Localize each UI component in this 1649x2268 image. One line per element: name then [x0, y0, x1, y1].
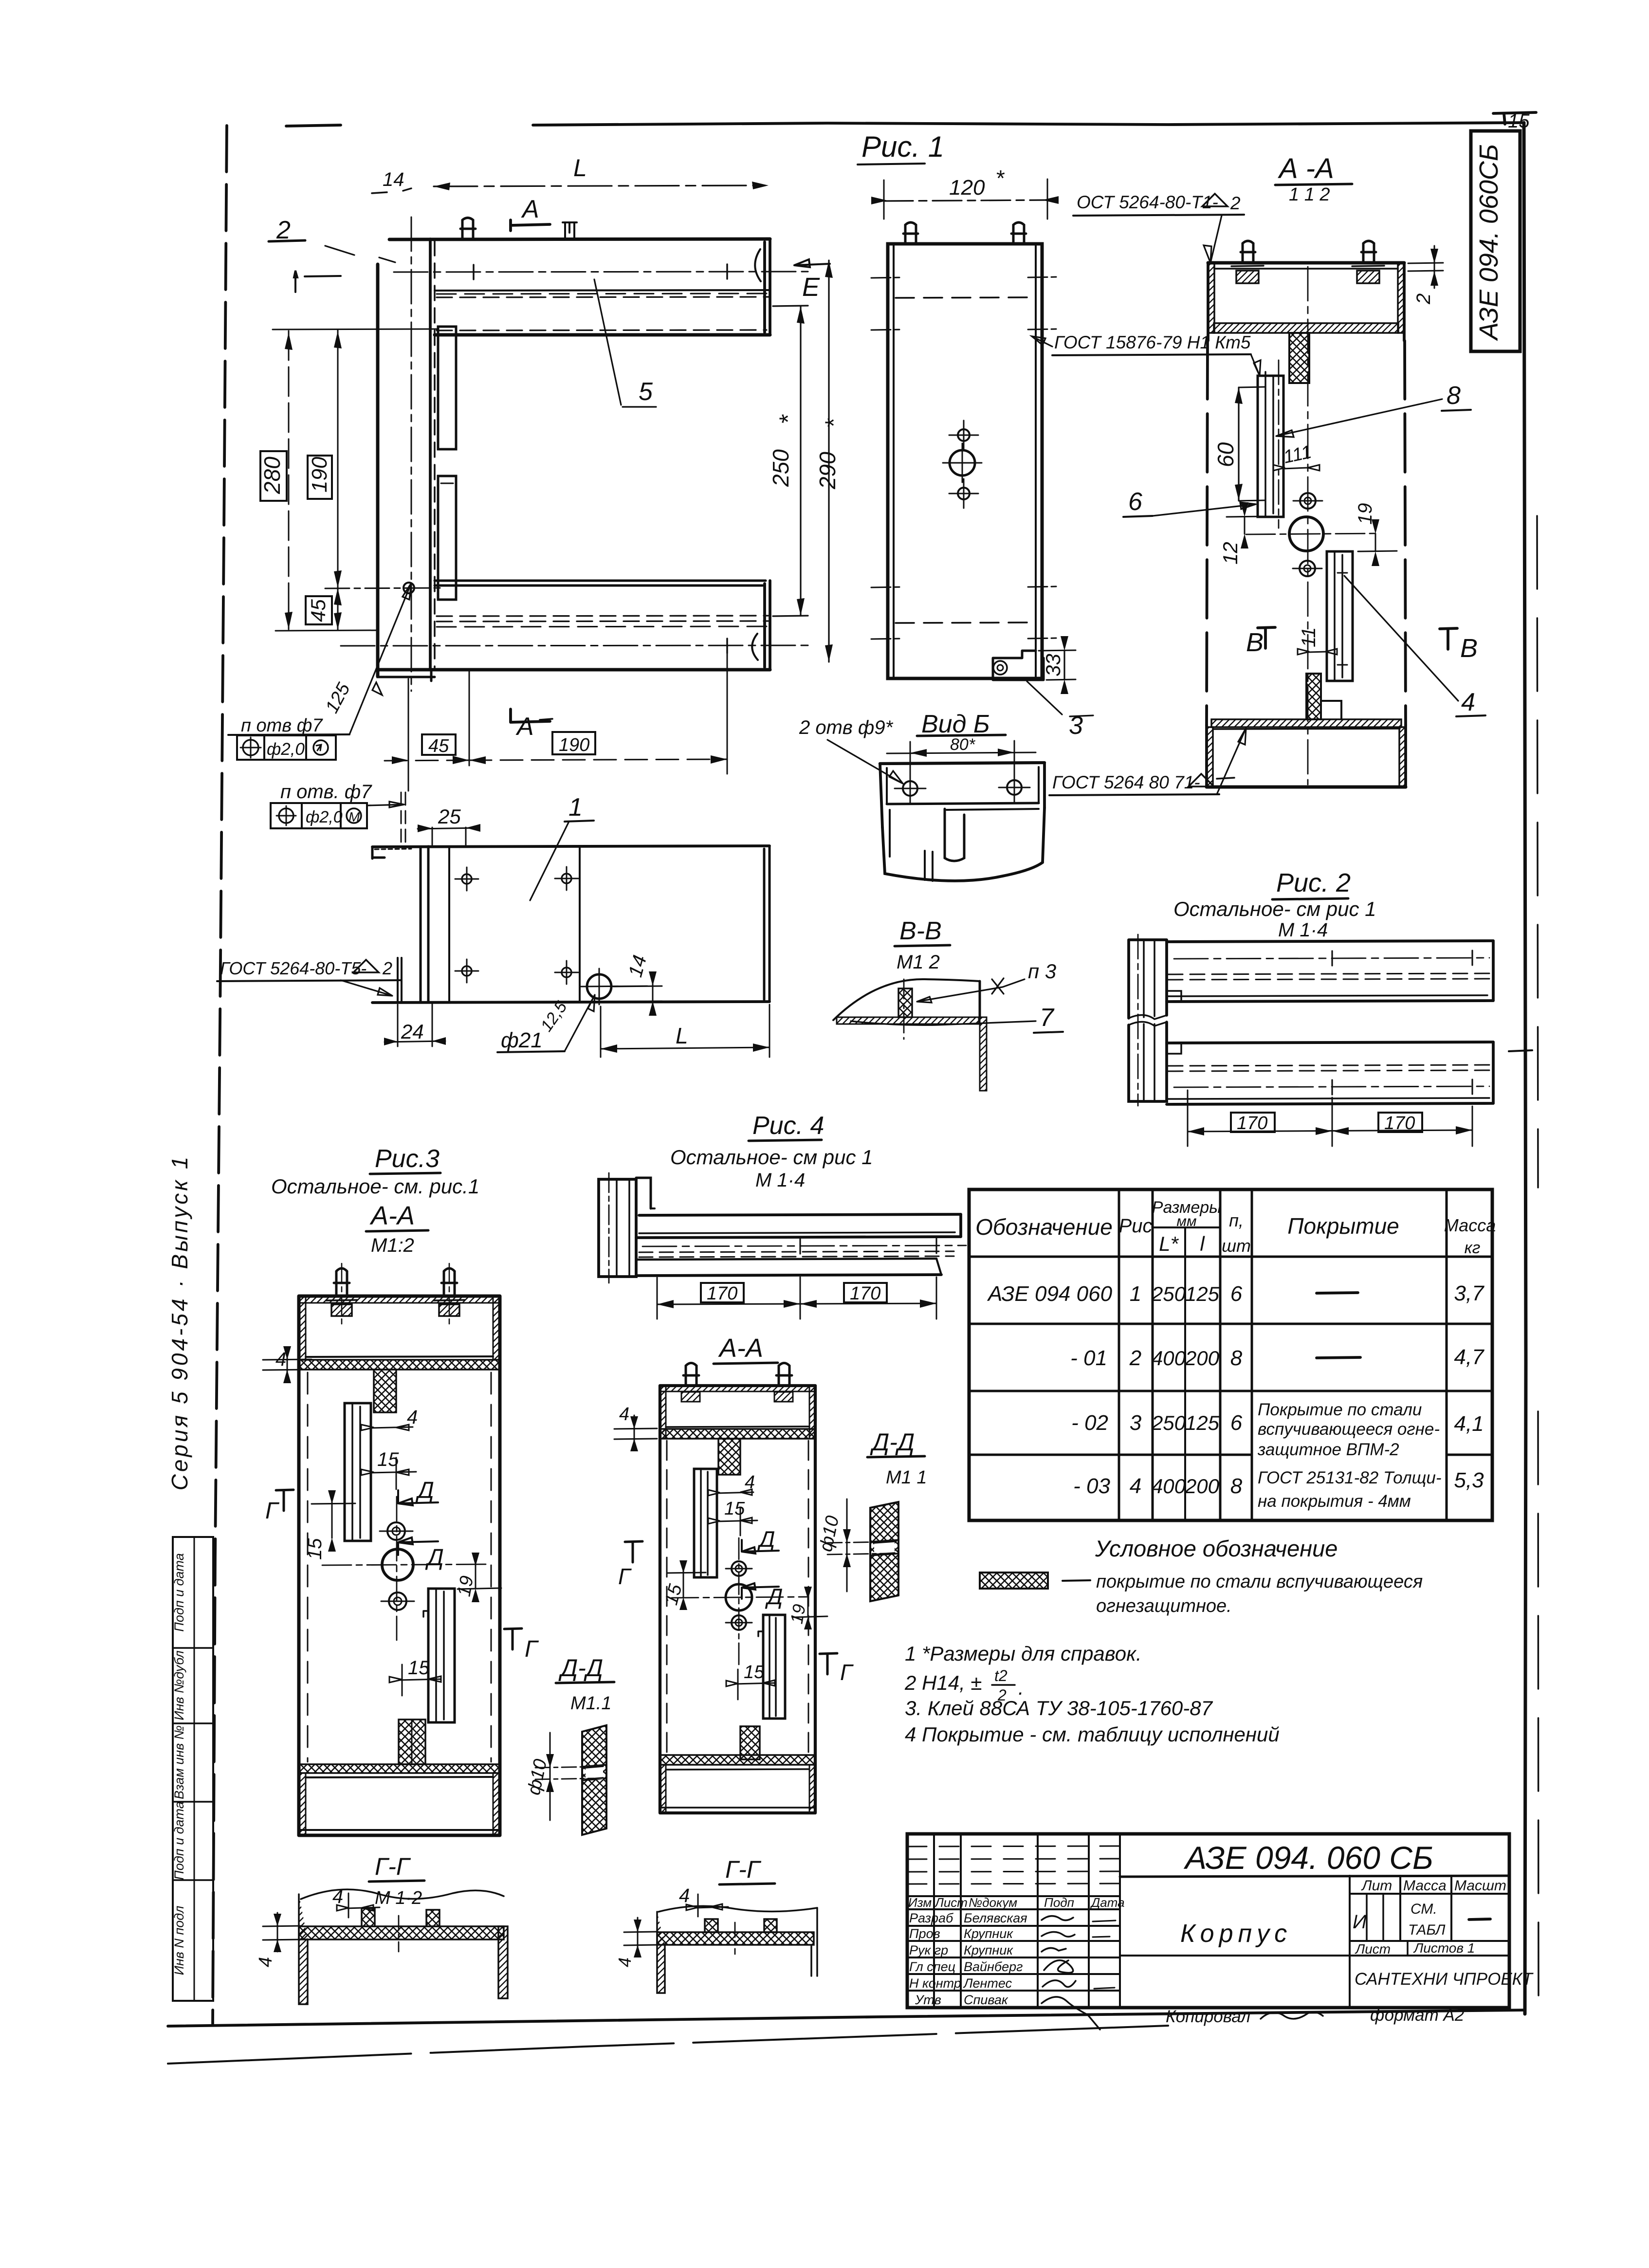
fig4 lower stub hatched — [740, 1726, 760, 1759]
lit-massa-masshtab sub table — [1400, 1876, 1451, 1941]
svg-text:1: 1 — [568, 793, 583, 822]
C-part web outer left edge — [376, 264, 380, 677]
svg-text:8: 8 — [1230, 1474, 1243, 1498]
AA outer right edge — [1403, 263, 1406, 341]
dim 290* far right — [828, 260, 829, 662]
svg-text:Подп и дата: Подп и дата — [172, 1553, 186, 1632]
svg-text:формат А2: формат А2 — [1370, 2006, 1464, 2025]
svg-text:Взам инв №: Взам инв № — [172, 1725, 186, 1799]
AA outer left edge — [1207, 263, 1209, 341]
svg-text:t2: t2 — [994, 1667, 1008, 1684]
AA left plate pair — [1258, 376, 1283, 517]
svg-text:Д: Д — [415, 1478, 434, 1503]
svg-text:400: 400 — [1152, 1475, 1186, 1498]
item1 left bottom tab — [398, 958, 402, 1003]
E-view bolt right — [1011, 222, 1026, 244]
svg-text:Масшт: Масшт — [1454, 1878, 1506, 1894]
svg-text:Покрытие: Покрытие — [1287, 1213, 1399, 1239]
svg-text:2: 2 — [382, 958, 392, 978]
E-view center hole big — [950, 450, 975, 476]
svg-text:*: * — [774, 414, 802, 424]
top flange slot arc — [755, 249, 761, 281]
item1 weld seam line — [579, 846, 581, 1002]
item5 leader — [594, 279, 656, 407]
E-view bolt left — [903, 222, 918, 244]
hole centerline — [325, 588, 440, 588]
bracket bolt — [993, 661, 1007, 675]
bracket lower tongue — [882, 808, 1044, 881]
svg-text:2: 2 — [1230, 193, 1241, 213]
fig4 bolt right — [776, 1363, 792, 1386]
svg-text:Обозначение: Обозначение — [975, 1214, 1113, 1240]
svg-text:Г: Г — [618, 1564, 632, 1589]
fig3 bottom band hatched — [299, 1764, 500, 1773]
item1 inner bend line — [448, 846, 450, 1002]
AA lower stub hatched — [1306, 674, 1321, 719]
extension line flange bottom — [273, 329, 438, 329]
svg-text:ГОСТ 15876-79 Н1 Кт5: ГОСТ 15876-79 Н1 Кт5 — [1054, 332, 1251, 352]
svg-text:СМ.: СМ. — [1411, 1901, 1437, 1917]
svg-text:Подп: Подп — [1044, 1895, 1074, 1910]
item1 bend verticals — [421, 846, 428, 1003]
fig3 bolt right — [441, 1268, 457, 1296]
fig3 G-G left leg hatched — [299, 1894, 308, 2004]
svg-text:АЗЕ 094. 060СБ: АЗЕ 094. 060СБ — [1474, 144, 1503, 341]
svg-text:Корпус: Корпус — [1180, 1920, 1292, 1948]
svg-text:125: 125 — [1185, 1411, 1220, 1434]
hole leader diagonal — [349, 583, 411, 734]
svg-text:мм: мм — [1176, 1213, 1196, 1229]
AA vertical centerline — [1307, 267, 1309, 785]
fig4 dims 170 170 — [657, 1277, 936, 1319]
fig4 bottom rail — [638, 1259, 936, 1260]
svg-text:5,3: 5,3 — [1454, 1468, 1484, 1492]
fig4 rail hidden lines — [639, 1251, 954, 1257]
web hole — [403, 583, 414, 593]
svg-text:Гл спец: Гл спец — [909, 1959, 955, 1974]
AA right plate pair — [1327, 551, 1353, 681]
bottom flange slot arc — [752, 634, 758, 660]
svg-text:4: 4 — [1130, 1474, 1141, 1498]
fig3 G-G right leg hatched — [498, 1926, 508, 1998]
svg-text:Дата: Дата — [1090, 1895, 1125, 1910]
svg-text:кг: кг — [1465, 1239, 1481, 1257]
svg-text:111: 111 — [1282, 442, 1313, 468]
fig3 left plate — [345, 1403, 371, 1541]
svg-text:190: 190 — [559, 735, 589, 755]
svg-text:400: 400 — [1152, 1347, 1186, 1370]
svg-text:Масса: Масса — [1403, 1878, 1447, 1894]
svg-text:ТАБЛ: ТАБЛ — [1408, 1922, 1446, 1938]
FIG1 MAIN C VIEW — [228, 130, 944, 791]
fig4 bolt left — [683, 1363, 699, 1386]
bolt 2 on top — [563, 222, 577, 239]
top flange inner lip line — [435, 290, 770, 291]
table outer box — [969, 1189, 1492, 1520]
fcf leader — [367, 802, 404, 807]
fig4 G-G band hatched — [657, 1932, 814, 1945]
fig4 G-G tab 1 — [705, 1919, 718, 1932]
svg-text:Г: Г — [840, 1660, 854, 1685]
C-part top flange top edge — [389, 239, 770, 239]
svg-text:3: 3 — [1069, 712, 1083, 740]
svg-text:1 *Размеры для справок.: 1 *Размеры для справок. — [905, 1642, 1142, 1665]
fig2 bottom rail centerline — [1174, 1086, 1489, 1087]
svg-text:8: 8 — [1447, 382, 1461, 410]
fig3 upper stub hatched — [374, 1370, 396, 1412]
fig4 G-G left leg hatched — [657, 1912, 665, 1993]
legend hatch sample — [980, 1573, 1048, 1589]
svg-text:4,1: 4,1 — [1454, 1412, 1484, 1436]
dim 120* top — [884, 200, 1047, 201]
svg-text:В: В — [1246, 628, 1264, 657]
svg-text:280: 280 — [259, 457, 285, 494]
item1 right edge — [764, 846, 770, 1002]
top frame border — [286, 125, 341, 126]
fig2 web block lower — [1129, 1022, 1167, 1101]
top flange centerline with marks — [394, 272, 808, 272]
fig2 web block upper — [1129, 940, 1167, 1018]
svg-text:В: В — [1460, 634, 1478, 663]
svg-text:15: 15 — [724, 1499, 745, 1519]
svg-text:3: 3 — [1130, 1411, 1142, 1435]
extension line bottom — [275, 630, 378, 631]
dim 250* right — [773, 306, 808, 616]
FIG1 MIDDLE RECT VIEW — [871, 165, 1261, 740]
fig4 top rail — [639, 1214, 961, 1215]
AA plate centerline — [1278, 360, 1280, 528]
svg-text:шт: шт — [1222, 1236, 1251, 1256]
svg-text:4: 4 — [619, 1404, 629, 1425]
svg-text:ф2,0: ф2,0 — [267, 740, 305, 759]
tab plate lower on web — [438, 476, 456, 600]
svg-text:2 отв ф9*: 2 отв ф9* — [799, 717, 894, 738]
svg-text:ф2,0: ф2,0 — [306, 808, 343, 826]
svg-text:ф10: ф10 — [816, 1514, 843, 1554]
tab plate upper on web — [438, 327, 456, 449]
svg-text:на покрытия - 4мм: на покрытия - 4мм — [1258, 1492, 1411, 1511]
E-view inner edge lines — [894, 244, 1036, 678]
fig4 G-G centerline — [734, 1922, 736, 1954]
svg-text:Г-Г: Г-Г — [725, 1856, 762, 1883]
AA big hole — [1289, 517, 1323, 551]
svg-text:6: 6 — [1230, 1282, 1243, 1306]
AA washer top — [1300, 493, 1316, 509]
svg-text:6: 6 — [1230, 1411, 1243, 1435]
fig2 top rail centerline — [1174, 958, 1489, 959]
bottom flange centerline — [341, 645, 808, 646]
fig3 divider band hatched — [299, 1360, 500, 1370]
right frame border — [1524, 123, 1526, 2014]
svg-text:190: 190 — [308, 457, 331, 493]
fig3 G-G top break line — [301, 1889, 504, 1899]
fig4 rail centerline — [642, 1245, 966, 1246]
svg-text:огнезащитное.: огнезащитное. — [1096, 1596, 1232, 1616]
svg-text:А: А — [515, 713, 534, 741]
fig3 D-D hatched bar — [582, 1725, 606, 1835]
svg-text:Н контр: Н контр — [909, 1976, 961, 1991]
svg-text:4 Покрытие - см. таблицу исп: 4 Покрытие - см. таблицу исполнений — [905, 1723, 1280, 1746]
svg-text:170: 170 — [1384, 1113, 1415, 1134]
svg-text:7: 7 — [1040, 1004, 1055, 1032]
svg-text:3,7: 3,7 — [1454, 1281, 1484, 1305]
svg-text:4: 4 — [1461, 688, 1475, 716]
fig3 bolt left — [334, 1268, 349, 1296]
svg-text:М 1·4: М 1·4 — [1278, 919, 1328, 941]
SECTION V-V — [833, 917, 1063, 1091]
svg-text:М 1·4: М 1·4 — [755, 1170, 805, 1191]
svg-text:М: М — [348, 809, 360, 824]
C-part web right edge — [429, 239, 432, 670]
V-V pad centerline — [903, 979, 905, 1039]
svg-text:45: 45 — [428, 736, 449, 756]
fig4 upper stub hatched — [718, 1439, 740, 1475]
AA washer bottom — [1300, 561, 1315, 576]
svg-text:125: 125 — [322, 679, 354, 716]
fig2 bottom rail — [1167, 1042, 1493, 1043]
svg-text:170: 170 — [850, 1283, 880, 1304]
dата column dashes — [1093, 1920, 1116, 1989]
svg-text:Д-Д: Д-Д — [870, 1428, 915, 1456]
leader item 8 — [1276, 399, 1442, 437]
svg-text:Лист: Лист — [1355, 1941, 1391, 1957]
FIG2 — [1129, 868, 1493, 1146]
dim 2 right of cap — [1408, 263, 1443, 271]
NOTES — [904, 1536, 1423, 1746]
svg-text:Лист: Лист — [934, 1895, 968, 1910]
svg-text:САНТЕХНИ ЧПРОЕКТ: САНТЕХНИ ЧПРОЕКТ — [1355, 1970, 1534, 1989]
bottom dims 45 and 190 — [408, 652, 727, 791]
E-view bottom step bracket — [993, 651, 1044, 680]
svg-text:ГОСТ 25131-82 Толщи-: ГОСТ 25131-82 Толщи- — [1258, 1468, 1442, 1487]
fig4 bottom band hatched — [660, 1755, 815, 1765]
AA horizontal centerline at hole — [1246, 533, 1377, 534]
svg-text:М1.1: М1.1 — [570, 1693, 611, 1714]
document stamp box top right — [1471, 131, 1520, 351]
E-view hidden lines — [896, 297, 1034, 298]
svg-text:Изм: Изм — [908, 1895, 932, 1910]
svg-text:п 3: п 3 — [1028, 960, 1056, 983]
svg-text:Подп и дата: Подп и дата — [172, 1801, 186, 1880]
top flange right edge — [765, 239, 770, 335]
SECTION A-A RIGHT — [1049, 153, 1485, 795]
svg-text:№докум: №докум — [969, 1895, 1017, 1910]
svg-text:покрытие по стали вспучиваю: покрытие по стали вспучивающееся — [1096, 1572, 1423, 1592]
svg-text:А-А: А-А — [718, 1334, 763, 1363]
leader item 4 — [1344, 576, 1458, 701]
svg-text:6: 6 — [1128, 488, 1142, 516]
right secondary dashed border — [1537, 516, 1539, 2005]
doc number cell underline — [1120, 1876, 1509, 1877]
fig4 channel left block — [599, 1179, 636, 1277]
V-V horizontal flange hatched — [837, 1017, 979, 1024]
svg-text:п отв. ф7: п отв. ф7 — [280, 781, 372, 803]
E-view outline — [888, 244, 1042, 678]
list row — [1350, 1940, 1509, 1942]
svg-text:Белявская: Белявская — [964, 1911, 1027, 1925]
svg-text:- 02: - 02 — [1071, 1411, 1108, 1435]
table header underline Размеры — [1153, 1226, 1220, 1228]
svg-text:Г: Г — [265, 1498, 280, 1524]
title block outer box — [907, 1834, 1509, 2008]
svg-text:М1:2: М1:2 — [371, 1235, 414, 1256]
svg-text:1: 1 — [1130, 1282, 1141, 1306]
svg-text:14: 14 — [624, 953, 651, 979]
svg-text:4: 4 — [256, 1957, 276, 1967]
svg-text:125: 125 — [1185, 1282, 1220, 1305]
tongue slot — [945, 809, 964, 861]
svg-text:Пров: Пров — [909, 1926, 940, 1941]
table header bottom — [969, 1256, 1492, 1258]
fig3 big hole — [382, 1549, 413, 1580]
svg-text:L: L — [676, 1023, 688, 1048]
svg-text:*: * — [995, 165, 1005, 191]
fig3 G-G centerline — [398, 1916, 400, 1952]
svg-text:Вайнберг: Вайнберг — [964, 1959, 1023, 1974]
svg-text:В-В: В-В — [899, 917, 942, 945]
svg-text:Спивак: Спивак — [964, 1993, 1008, 2007]
svg-text:4,7: 4,7 — [1454, 1345, 1484, 1369]
fig4 section outer box — [660, 1386, 815, 1813]
svg-text:45: 45 — [307, 599, 330, 622]
dim 190-45 vertical — [337, 330, 339, 630]
bottom frame border — [168, 2010, 1525, 2026]
svg-text:п,: п, — [1229, 1210, 1244, 1230]
fig4 hole centerline — [672, 1597, 808, 1598]
AA bolt left — [1241, 241, 1255, 263]
svg-text:80*: 80* — [950, 735, 976, 754]
svg-text:25: 25 — [438, 805, 461, 828]
svg-text:3. Клей 88СА ТУ 38-105-1760-: 3. Клей 88СА ТУ 38-105-1760-87 — [905, 1697, 1213, 1719]
signature squiggles — [1042, 1916, 1073, 1920]
fig2 dims 170 170 — [1188, 1090, 1472, 1146]
svg-text:Рис. 1: Рис. 1 — [861, 130, 944, 163]
V-V vertical leg hatched — [980, 1017, 987, 1091]
svg-text:Крупник: Крупник — [964, 1943, 1013, 1957]
leader item 3 — [1027, 681, 1093, 716]
fig3 G-G band hatched — [299, 1926, 504, 1939]
fig4 left plate — [694, 1469, 717, 1577]
dim 280 vertical — [288, 331, 290, 629]
fig4 right plate — [763, 1615, 785, 1719]
svg-text:19: 19 — [1355, 503, 1376, 525]
table column lines — [1119, 1189, 1447, 1520]
fig2 top rail hidden lines — [1168, 973, 1489, 980]
svg-text:Серия 5 904-54 · Выпуск 1: Серия 5 904-54 · Выпуск 1 — [167, 1154, 192, 1491]
fig3 bottom cap — [306, 1777, 493, 1777]
bottom flange top edge — [435, 581, 766, 585]
left frame border — [213, 126, 227, 2024]
fig3 top cap walls hatched — [299, 1296, 500, 1303]
svg-text:Копировал: Копировал — [1166, 2007, 1250, 2026]
TABLE — [969, 1189, 1496, 1520]
svg-text:.: . — [1018, 1676, 1024, 1699]
svg-text:250: 250 — [1151, 1282, 1186, 1305]
svg-text:ГОСТ 5264-80-Т5-: ГОСТ 5264-80-Т5- — [220, 958, 366, 978]
bracket top plate — [880, 763, 1044, 764]
svg-text:Остальное- см рис 1: Остальное- см рис 1 — [1173, 897, 1376, 920]
svg-text:2 Н14, ±: 2 Н14, ± — [904, 1671, 982, 1694]
svg-text:11: 11 — [1298, 627, 1319, 647]
title block left column lines — [934, 1834, 1120, 2008]
svg-text:12: 12 — [1219, 542, 1242, 565]
fold mark right — [1509, 1050, 1532, 1051]
fig3 lower plate — [428, 1589, 455, 1722]
fig4 divider band hatched — [660, 1429, 815, 1439]
svg-text:защитное ВПМ-2: защитное ВПМ-2 — [1257, 1440, 1399, 1459]
fig3 washer bottom — [389, 1592, 406, 1610]
fig4 G-G top break line — [659, 1906, 817, 1912]
svg-text:l: l — [1200, 1232, 1205, 1255]
svg-text:250: 250 — [768, 449, 793, 487]
svg-text:Рис: Рис — [1119, 1215, 1153, 1237]
svg-text:Утв: Утв — [915, 1993, 941, 2007]
svg-text:АЗЕ 094. 060 СБ: АЗЕ 094. 060 СБ — [1183, 1840, 1433, 1876]
svg-text:Д: Д — [425, 1545, 444, 1571]
svg-text:5: 5 — [639, 378, 653, 406]
bolt 1 on top — [460, 218, 476, 239]
fig3 inner hidden walls — [308, 1372, 491, 1762]
view mark small arrow left — [294, 271, 341, 292]
fig3 washer top — [387, 1522, 405, 1540]
svg-text:Е: Е — [802, 273, 820, 302]
svg-text:4: 4 — [679, 1885, 690, 1906]
top flange hidden lines — [437, 297, 769, 297]
svg-text:170: 170 — [707, 1283, 737, 1304]
svg-text:Рис.3: Рис.3 — [375, 1145, 440, 1173]
fig3 vertical centerline — [396, 1497, 398, 1640]
svg-text:Лентес: Лентес — [963, 1976, 1012, 1991]
VID B — [799, 710, 1044, 881]
AA bolt right — [1361, 241, 1376, 263]
dim 19 right — [1375, 534, 1376, 551]
AA bottom band hatched — [1211, 719, 1401, 727]
AA top cap — [1208, 261, 1404, 265]
item1 left lip — [372, 847, 385, 859]
svg-text:Инв №дубл: Инв №дубл — [172, 1650, 186, 1720]
fig2 web break — [1129, 1015, 1167, 1026]
web centerline — [411, 217, 412, 691]
svg-text:А: А — [521, 195, 539, 223]
fig4 top cap walls hatched — [660, 1386, 815, 1391]
svg-text:4: 4 — [615, 1957, 635, 1967]
ITEM1 BRACKET — [217, 781, 770, 1057]
V-V coating pad hatched — [898, 988, 912, 1017]
svg-text:А-А: А-А — [369, 1201, 415, 1230]
item1 bottom edge — [372, 1002, 770, 1003]
fig3 lower stub hatched — [399, 1719, 425, 1764]
svg-text:2: 2 — [1413, 293, 1434, 305]
svg-text:14: 14 — [383, 169, 404, 190]
svg-text:Крупник: Крупник — [964, 1926, 1013, 1941]
svg-text:вспучивающееся огне-: вспучивающееся огне- — [1258, 1420, 1440, 1439]
svg-text:15: 15 — [408, 1657, 430, 1679]
fig3 G-G tab 1 — [362, 1908, 375, 1926]
svg-text:ф21: ф21 — [501, 1028, 543, 1052]
svg-text:2: 2 — [1129, 1346, 1141, 1370]
svg-text:ОСТ 5264-80-Т1-: ОСТ 5264-80-Т1- — [1077, 192, 1218, 212]
svg-text:Масса: Масса — [1444, 1215, 1496, 1235]
bottom flange bottom edge — [378, 668, 770, 672]
svg-text:АЗЕ 094 060: АЗЕ 094 060 — [987, 1282, 1113, 1306]
FIG4 — [599, 1112, 966, 1993]
bottom second border line — [168, 2026, 1168, 2064]
svg-text:290: 290 — [815, 452, 840, 490]
svg-text:Покрытие по стали: Покрытие по стали — [1258, 1400, 1422, 1419]
svg-text:1 1 2: 1 1 2 — [1289, 184, 1330, 205]
svg-text:170: 170 — [1237, 1113, 1267, 1134]
web foot bottom left — [378, 670, 435, 681]
